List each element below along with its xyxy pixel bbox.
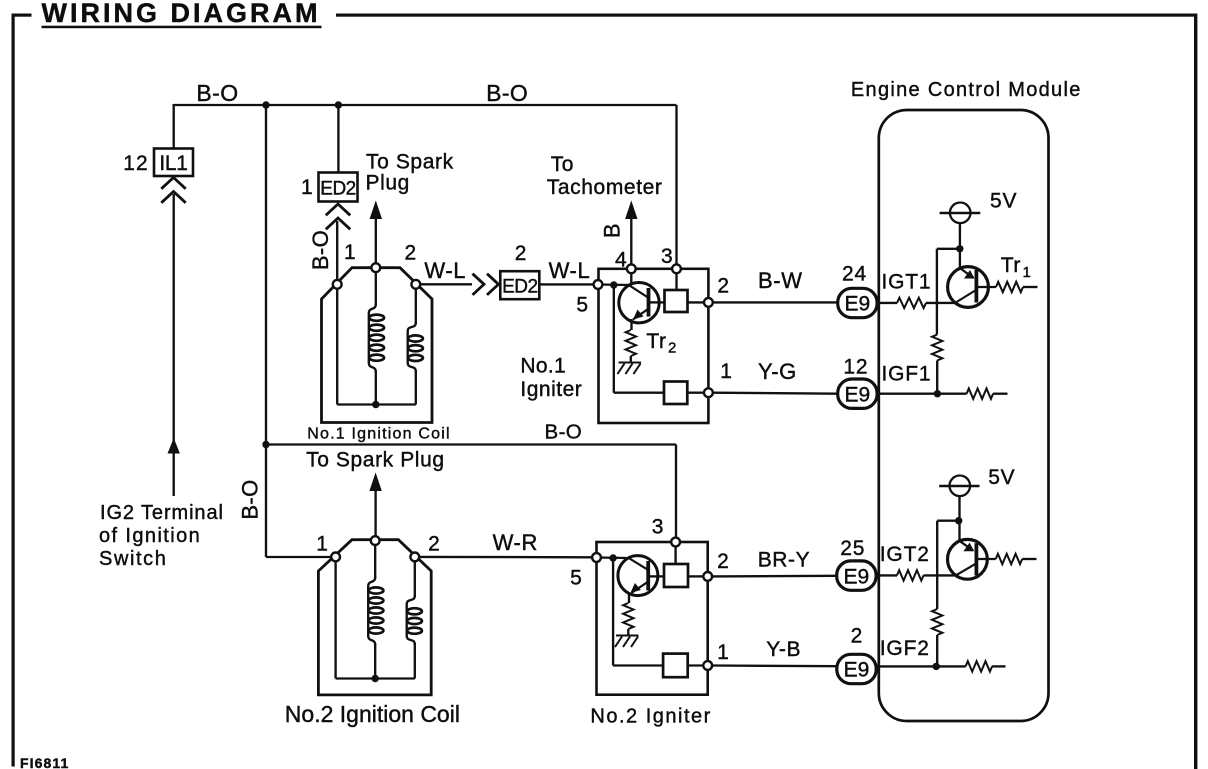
- transistor Tr2 collector: [630, 286, 649, 298]
- wire IGF1 resistor out: [993, 393, 1007, 395]
- wire coil1 inner bottom: [337, 403, 416, 405]
- wire Tr ch2 base resistor out: [1022, 558, 1036, 560]
- frame left rule: [12, 14, 15, 767]
- svg-text:No.2 Ignition Coil: No.2 Ignition Coil: [285, 701, 460, 727]
- label To Spark Plug (No.1): [366, 151, 454, 195]
- coil1 primary winding: [369, 269, 384, 405]
- label IG2 Terminal of Ignition Switch: [99, 502, 224, 570]
- resistor IGF2 series: [966, 661, 993, 671]
- label BR-Y: [758, 548, 811, 571]
- node dot below 5V (ch2): [955, 517, 962, 524]
- node igniter1 base junction dot: [610, 281, 617, 288]
- wire top B-O bus: [174, 104, 677, 106]
- wire pullup to IGF1 node: [936, 361, 938, 394]
- ECM outline rounded box: [879, 110, 1049, 721]
- svg-text:IGT2: IGT2: [880, 543, 930, 566]
- terminal igniter1 pin2: [704, 298, 713, 307]
- pin 5 label of igniter2: [570, 567, 582, 590]
- wire igniter2 IGF branch horizontal: [613, 664, 663, 666]
- pin 12 label: [843, 355, 868, 378]
- wire coil2 inner bottom: [336, 677, 415, 679]
- transistor Tr ch2 bar: [975, 543, 979, 575]
- connector E9 (IGT2): [837, 561, 876, 590]
- frame right rule: [1194, 14, 1197, 769]
- wire Tr1 base to resistor: [976, 286, 996, 288]
- terminal igniter2 pin3: [671, 538, 680, 547]
- wire Y-G: [712, 393, 838, 394]
- svg-text:Tachometer: Tachometer: [547, 176, 663, 199]
- svg-text:2: 2: [405, 242, 417, 265]
- transistor Tr2 circle: [619, 283, 659, 323]
- svg-text:Y-G: Y-G: [758, 359, 797, 384]
- svg-text:1: 1: [301, 176, 313, 199]
- wire Tr ch2 base to resistor: [976, 558, 995, 560]
- title underline: [42, 26, 322, 29]
- pin 12 label of IL1: [123, 152, 148, 175]
- label Tr1: [1001, 254, 1032, 281]
- wire square to igniter1 pin1: [687, 392, 705, 394]
- svg-text:1: 1: [717, 641, 729, 664]
- connector IL1 box: [154, 149, 193, 177]
- terminal igniter2 pin2: [703, 572, 712, 581]
- resistor Tr ch2 base: [996, 554, 1023, 564]
- connector IL1 label: [159, 152, 187, 175]
- connector chevron 1 (W-L): [473, 274, 485, 295]
- node coil1 inner junction dot: [372, 401, 379, 408]
- ground igniter1: [618, 363, 642, 375]
- svg-text:3: 3: [652, 516, 664, 539]
- svg-text:1: 1: [720, 360, 732, 383]
- svg-text:5V: 5V: [990, 190, 1017, 213]
- label 5V (ch1): [990, 190, 1017, 213]
- resistor IGF1 series: [967, 389, 994, 399]
- svg-text:W-L: W-L: [424, 258, 466, 283]
- ground igniter2: [615, 636, 639, 648]
- svg-text:Plug: Plug: [366, 172, 410, 195]
- wire IGT2 segment: [875, 574, 897, 576]
- pin 1 label of coil2: [316, 533, 328, 556]
- svg-text:1: 1: [316, 533, 328, 556]
- transistor Tr ch2 collector: [955, 564, 976, 576]
- svg-text:24: 24: [842, 263, 867, 286]
- pin 1 label of ED2 (No.1): [301, 176, 313, 199]
- label IGT2: [880, 543, 930, 566]
- wire Tr1 base resistor out: [1023, 286, 1038, 288]
- svg-text:B-O: B-O: [486, 80, 528, 106]
- connector E9 (IGF1): [838, 379, 877, 408]
- terminal coil2 pin1: [331, 553, 340, 562]
- label Y-G: [758, 359, 797, 384]
- wire IG2 vertical: [173, 194, 175, 496]
- svg-text:3: 3: [661, 245, 673, 268]
- svg-text:B: B: [599, 223, 624, 238]
- wire B-W: [712, 301, 838, 303]
- pin 1 label (igniter1 fb): [720, 360, 732, 383]
- wire spark plug lead (No.2): [374, 490, 376, 537]
- svg-text:1: 1: [1023, 264, 1032, 281]
- svg-text:E9: E9: [845, 293, 871, 316]
- wire W-R: [419, 556, 593, 559]
- connector ED2 box (No.1): [319, 173, 358, 202]
- svg-text:ED2: ED2: [502, 277, 537, 298]
- wire igniter2 IGF branch vertical: [612, 558, 614, 666]
- pin 2 label of coil2: [428, 533, 440, 556]
- wire tachometer lead: [630, 218, 632, 265]
- wire 5V to node (ch2): [958, 496, 960, 542]
- label B-W: [758, 268, 803, 293]
- pin 2 label (IGF2): [851, 624, 863, 647]
- label W-L (left): [424, 258, 466, 283]
- svg-text:Engine Control Module: Engine Control Module: [851, 79, 1082, 101]
- pin 2 label (igniter2 out): [717, 550, 729, 573]
- wire mid B-O bus: [266, 443, 676, 445]
- svg-text:B-O: B-O: [237, 479, 262, 519]
- svg-text:No.2 Igniter: No.2 Igniter: [590, 705, 711, 727]
- wire coil1 pin2 to chevrons: [420, 283, 472, 285]
- terminal coil1 pin1: [333, 280, 342, 289]
- svg-text:B-O: B-O: [308, 230, 333, 270]
- svg-text:ED2: ED2: [320, 179, 355, 200]
- terminal coil1 top (spark): [371, 263, 380, 272]
- label To Spark Plug (No.2): [306, 449, 445, 472]
- transistor Tr1 collector: [955, 290, 976, 303]
- label Y-B: [766, 638, 801, 661]
- svg-text:Tr: Tr: [646, 330, 666, 353]
- igniter No.1 box: [599, 269, 709, 423]
- caption No.2 Ignition Coil: [285, 701, 460, 727]
- wire resistor to ground (igniter1): [630, 356, 632, 363]
- connector ED2 label (No.2): [502, 277, 537, 298]
- wire ED2 to coil1 pin1: [336, 221, 338, 283]
- arrow up on IG2 wire: [168, 438, 180, 454]
- svg-text:5V: 5V: [988, 466, 1015, 489]
- wire IGF2 segment: [875, 665, 966, 667]
- svg-text:2: 2: [851, 624, 863, 647]
- wire coil1 primary left lead: [336, 286, 338, 405]
- svg-text:25: 25: [840, 537, 865, 560]
- terminal igniter1 pin4: [627, 264, 636, 273]
- frame top rule left stub: [12, 14, 32, 17]
- label No.1 Igniter: [520, 354, 582, 401]
- wire pullup to IGF2 node: [936, 635, 938, 666]
- terminal igniter2 pin1: [703, 661, 712, 670]
- svg-text:12: 12: [123, 152, 148, 175]
- svg-text:IG2 Terminal: IG2 Terminal: [100, 502, 224, 524]
- pin 2 label of coil1: [405, 242, 417, 265]
- wire riser to coil2 pin1: [266, 556, 333, 558]
- wire IL1 riser: [173, 104, 175, 149]
- svg-text:WIRING DIAGRAM: WIRING DIAGRAM: [42, 0, 321, 28]
- pin 3 label of igniter1: [661, 245, 673, 268]
- svg-text:5: 5: [576, 294, 588, 317]
- svg-text:FI6811: FI6811: [20, 755, 69, 769]
- wire igniter1 IGF branch vertical: [613, 285, 615, 393]
- label IGT1: [882, 271, 932, 294]
- svg-text:W-R: W-R: [493, 530, 538, 555]
- svg-text:2: 2: [428, 533, 440, 556]
- terminal coil2 pin2: [410, 553, 419, 562]
- pin 4 label of igniter1: [615, 249, 627, 272]
- coil2 secondary winding: [407, 559, 422, 679]
- wire resistor to Tr ch2: [924, 574, 956, 576]
- wire resistor to Tr1: [926, 302, 956, 304]
- caption No.1 Ignition Coil: [307, 426, 450, 443]
- transistor igniter2 circle: [618, 556, 658, 596]
- wire igniter2 pin3 to output square: [674, 544, 676, 564]
- transistor Tr ch2 circle: [948, 539, 988, 579]
- wire branch to pullup (ch1): [937, 249, 960, 335]
- svg-text:To Spark Plug: To Spark Plug: [306, 449, 445, 472]
- wire igniter2 pin5 to transistor: [599, 556, 627, 559]
- svg-text:W-L: W-L: [549, 258, 591, 283]
- igniter2 feedback square (pin1): [663, 654, 688, 678]
- transistor igniter2 emitter arrowhead: [630, 583, 641, 593]
- igniter No.2 box: [597, 542, 708, 695]
- terminal igniter1 pin3: [672, 264, 681, 273]
- wire mid bus drop to igniter2 pin3: [675, 445, 677, 543]
- wire IGF1 segment: [877, 393, 967, 395]
- connector E9 (IGT1): [838, 288, 877, 317]
- wire coil2 primary left lead: [334, 559, 336, 679]
- svg-text:Igniter: Igniter: [520, 378, 582, 401]
- svg-text:2: 2: [717, 550, 729, 573]
- pin 25 label: [840, 537, 865, 560]
- wire resistor to ground (igniter2): [627, 629, 629, 636]
- svg-text:Tr: Tr: [1001, 254, 1021, 277]
- connector E9 (IGF2): [837, 654, 876, 683]
- resistor IGT2 series: [897, 570, 924, 580]
- wire square to igniter2 pin2: [688, 575, 704, 577]
- connector chevron 2 (W-L): [487, 274, 499, 295]
- node IGF2 junction dot: [933, 663, 940, 670]
- connector chevron 1 below ED2: [326, 204, 350, 215]
- transistor Tr1 emitter arrowhead: [964, 270, 975, 279]
- wire ED2 riser: [337, 105, 339, 173]
- svg-text:2: 2: [668, 340, 677, 357]
- node igniter2 base junction dot: [609, 554, 616, 561]
- node coil2 inner junction dot: [372, 675, 379, 682]
- svg-text:IGF1: IGF1: [882, 363, 932, 386]
- igniter2 output square (pin2): [664, 564, 688, 587]
- pin 2 label of ED2 (No.2): [515, 242, 527, 265]
- resistor igniter1 emitter: [626, 330, 636, 356]
- wire igniter1 pin3 to output square: [675, 271, 677, 290]
- transistor Tr2 emitter: [633, 309, 648, 320]
- label IGF2: [880, 637, 930, 660]
- power source 5V circle (ch2): [939, 476, 979, 497]
- wire top bus drop to igniter1 pin3: [675, 105, 677, 265]
- pin 1 label (igniter2 fb): [717, 641, 729, 664]
- transistor Tr1 emitter: [961, 269, 974, 279]
- label B rotated (tach lead): [599, 223, 624, 238]
- node IGF1 junction dot: [934, 390, 941, 397]
- svg-text:IGT1: IGT1: [882, 271, 932, 294]
- pin 3 label of igniter2: [652, 516, 664, 539]
- node junction dot at center riser: [262, 101, 269, 108]
- transistor Tr2 bar: [647, 288, 651, 317]
- pin 2 label (igniter1 out): [717, 274, 729, 297]
- power source 5V circle (ch1): [940, 203, 981, 224]
- wire IGF2 resistor out: [992, 665, 1005, 667]
- terminal igniter2 pin5: [592, 553, 601, 562]
- pin 5 label of igniter1: [576, 294, 588, 317]
- label Engine Control Module: [851, 79, 1082, 101]
- svg-text:E9: E9: [845, 383, 871, 406]
- svg-text:B-O: B-O: [545, 420, 583, 443]
- terminal igniter1 pin1: [704, 388, 713, 397]
- wire branch to pullup (ch2): [937, 521, 959, 609]
- label IGF1: [882, 363, 932, 386]
- svg-text:B-O: B-O: [196, 80, 238, 106]
- pin 24 label: [842, 263, 867, 286]
- wire igniter2 base to output square: [648, 575, 664, 577]
- svg-text:E9: E9: [844, 659, 870, 682]
- node junction dot at ED2 riser: [335, 101, 342, 108]
- terminal coil2 top (spark): [371, 536, 380, 545]
- wire igniter1 pin4 into transistor: [630, 271, 632, 284]
- title WIRING DIAGRAM: [42, 0, 321, 28]
- label Tr2: [646, 330, 676, 357]
- wire igniter1 IGF branch horizontal: [614, 392, 664, 394]
- transistor Tr1 bar: [975, 270, 979, 303]
- transistor Tr2 emitter arrowhead: [633, 310, 644, 320]
- label B-O rotated (ED2 drop): [308, 230, 333, 270]
- figure code FI6811: [20, 755, 69, 769]
- node dot below 5V (ch1): [956, 245, 963, 252]
- arrow to spark plug (No.1): [370, 201, 382, 220]
- transistor igniter2 bar: [646, 561, 650, 591]
- transistor Tr ch2 emitter arrowhead: [963, 543, 974, 552]
- resistor igniter2 emitter: [623, 603, 633, 629]
- wire BR-Y: [712, 575, 837, 578]
- transistor Tr1 circle: [948, 267, 989, 308]
- wire igniter1 pin5 to transistor: [600, 283, 629, 286]
- resistor IGT1 series: [897, 298, 926, 308]
- resistor Tr1 base: [996, 282, 1023, 292]
- svg-text:Y-B: Y-B: [766, 638, 801, 661]
- node junction dot on mid bus: [262, 441, 269, 448]
- svg-text:IL1: IL1: [159, 152, 187, 175]
- transistor Tr ch2 emitter: [960, 541, 973, 550]
- wire 5V to node (ch1): [959, 223, 961, 268]
- pin 1 label of coil1: [344, 241, 356, 264]
- resistor pullup IGF2: [932, 609, 942, 635]
- connector chevron 2 below ED2: [326, 218, 350, 229]
- resistor pullup IGF1: [932, 335, 942, 361]
- arrow to spark plug (No.2): [369, 473, 381, 492]
- svg-text:No.1 Ignition Coil: No.1 Ignition Coil: [307, 426, 450, 443]
- connector chevron 1 below IL1: [161, 178, 185, 189]
- ignition coil No.2 housing: [318, 540, 431, 695]
- label 5V (ch2): [988, 466, 1015, 489]
- wire ED2 to igniter1 pin5: [539, 283, 594, 285]
- caption No.2 Igniter: [590, 705, 711, 727]
- coil2 primary winding: [368, 542, 383, 679]
- svg-text:2: 2: [717, 274, 729, 297]
- wire square to igniter1 pin2: [688, 301, 706, 303]
- connector ED2 box (No.2): [500, 271, 539, 299]
- label W-L (right): [549, 258, 591, 283]
- arrow to tachometer: [625, 201, 637, 220]
- label B-O (mid bus right): [545, 420, 583, 443]
- svg-text:2: 2: [515, 242, 527, 265]
- wire Tr2 base to output square: [649, 301, 665, 303]
- svg-text:Switch: Switch: [99, 548, 168, 570]
- wire spark plug lead (No.1): [375, 218, 377, 264]
- svg-text:No.1: No.1: [520, 354, 566, 377]
- svg-text:To: To: [551, 153, 574, 176]
- wire center B-O riser: [265, 105, 267, 557]
- svg-text:BR-Y: BR-Y: [758, 548, 811, 571]
- label B-O (left of bus): [196, 80, 238, 106]
- transistor igniter2 emitter: [632, 582, 648, 593]
- terminal igniter1 pin5: [594, 280, 603, 289]
- igniter1 output square (pin2): [665, 290, 688, 312]
- svg-text:IGF2: IGF2: [880, 637, 930, 660]
- igniter1 feedback square (pin1): [664, 382, 687, 405]
- terminal coil1 pin2: [411, 280, 420, 289]
- svg-text:of Ignition: of Ignition: [99, 525, 201, 547]
- svg-text:12: 12: [843, 355, 868, 378]
- wire Tr2 emitter to resistor: [630, 319, 632, 330]
- coil1 secondary winding: [408, 286, 423, 405]
- label To Tachometer: [547, 153, 663, 199]
- transistor igniter2 collector: [629, 558, 648, 570]
- label B-O rotated (center riser): [237, 479, 262, 519]
- svg-text:To Spark: To Spark: [366, 151, 454, 174]
- frame top rule: [336, 14, 1197, 17]
- label W-R: [493, 530, 538, 555]
- wire IGT1 segment: [877, 302, 897, 304]
- svg-text:B-W: B-W: [758, 268, 803, 293]
- svg-text:5: 5: [570, 567, 582, 590]
- wire square to igniter2 pin1: [688, 664, 704, 666]
- connector chevron 2 below IL1: [161, 192, 185, 203]
- svg-text:E9: E9: [844, 565, 870, 588]
- label B-O (mid bus): [486, 80, 528, 106]
- ignition coil No.1 housing: [322, 268, 433, 423]
- connector ED2 label (No.1): [320, 179, 355, 200]
- svg-text:1: 1: [344, 241, 356, 264]
- wire Y-B: [712, 664, 838, 667]
- wire igniter2 emitter to resistor: [628, 593, 630, 604]
